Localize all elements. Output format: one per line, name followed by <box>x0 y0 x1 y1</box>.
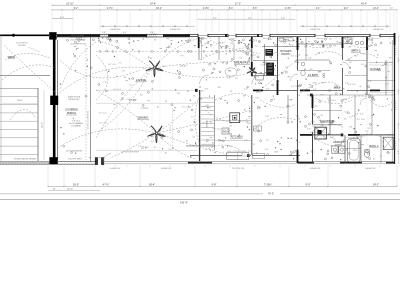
svg-text:2'-6": 2'-6" <box>168 149 172 151</box>
wall post square top-left <box>49 32 56 39</box>
svg-text:2'-6": 2'-6" <box>191 117 195 119</box>
svg-text:4'-0": 4'-0" <box>281 17 285 19</box>
svg-text:10'-10": 10'-10" <box>66 2 74 5</box>
porch-living boundary wall <box>90 37 92 162</box>
svg-text:GFI: GFI <box>246 55 249 57</box>
elevator shaft <box>315 127 327 139</box>
svg-text:CLG (PAINT): CLG (PAINT) <box>71 124 81 127</box>
svg-text:9'-0": 9'-0" <box>306 183 311 186</box>
beam dimension tick rows <box>100 25 195 27</box>
svg-text:5'-0": 5'-0" <box>344 112 348 114</box>
svg-text:2'-6": 2'-6" <box>272 99 276 101</box>
svg-text:13'-2": 13'-2" <box>373 8 379 10</box>
svg-text:8'-0" CLG: 8'-0" CLG <box>385 62 393 64</box>
svg-text:1'-6": 1'-6" <box>244 140 248 142</box>
butlers pantry upper appliance <box>265 49 273 56</box>
svg-text:4'-0": 4'-0" <box>246 87 250 89</box>
svg-text:5'-0": 5'-0" <box>118 62 122 64</box>
bath4 shower <box>383 137 393 149</box>
svg-text:3'-1": 3'-1" <box>151 141 155 143</box>
ceiling fan breakfast <box>247 68 257 77</box>
svg-text:5'-0": 5'-0" <box>143 69 147 71</box>
vertical dim mid <box>172 108 174 150</box>
kitchen sink counter <box>254 126 262 131</box>
svg-text:CLOSET: CLOSET <box>370 67 381 71</box>
bath5 tub <box>343 38 352 44</box>
svg-text:LIVING: LIVING <box>136 78 147 82</box>
right exterior wall <box>394 33 396 164</box>
svg-text:8'-0" CLG: 8'-0" CLG <box>141 108 149 110</box>
svg-text:1'-6": 1'-6" <box>355 113 359 115</box>
svg-text:5'-0": 5'-0" <box>387 153 391 155</box>
svg-text:COVERED: COVERED <box>65 108 78 112</box>
svg-text:5'-0": 5'-0" <box>297 142 301 144</box>
svg-text:1'-6": 1'-6" <box>344 99 348 101</box>
svg-text:8'-0" CLG: 8'-0" CLG <box>113 89 121 91</box>
svg-text:4'-0": 4'-0" <box>385 84 389 86</box>
svg-text:8'-0" CLG: 8'-0" CLG <box>312 132 320 134</box>
svg-text:6'-8": 6'-8" <box>126 99 130 101</box>
svg-text:2'-8": 2'-8" <box>121 34 125 36</box>
right wall window hatches <box>393 45 396 47</box>
svg-text:PANTRY: PANTRY <box>281 53 291 56</box>
svg-text:6'-8": 6'-8" <box>238 121 242 123</box>
svg-text:8'-0" CLG: 8'-0" CLG <box>108 64 116 66</box>
svg-text:8'-0" CLG: 8'-0" CLG <box>182 107 190 109</box>
svg-text:2'-8": 2'-8" <box>297 55 301 57</box>
butlers pantry lower appliance <box>266 63 274 76</box>
ceiling fan living <box>146 61 163 77</box>
schedule box bottom <box>227 153 249 160</box>
breakfast table <box>225 68 237 76</box>
svg-text:5'-0": 5'-0" <box>330 137 334 139</box>
svg-text:18'-4": 18'-4" <box>149 183 155 186</box>
svg-text:3'-1": 3'-1" <box>316 8 321 10</box>
svg-text:9'-0" CLG: 9'-0" CLG <box>170 125 172 133</box>
svg-text:10'-10": 10'-10" <box>67 188 73 190</box>
svg-text:ELEVATOR: ELEVATOR <box>320 119 334 123</box>
svg-text:3'-1": 3'-1" <box>286 122 290 124</box>
left exterior wall <box>53 35 56 161</box>
svg-text:1x6 T&G CLG BEYOND: 1x6 T&G CLG BEYOND <box>88 110 90 129</box>
svg-text:1'-6": 1'-6" <box>365 131 369 133</box>
svg-text:KITCHEN: KITCHEN <box>231 135 243 139</box>
dining width dimension <box>96 102 197 104</box>
bath4 toilet <box>364 151 369 158</box>
svg-text:4-BEAM DIM: 4-BEAM DIM <box>161 167 172 170</box>
svg-text:6'-2": 6'-2" <box>213 17 217 19</box>
stair down treads <box>201 97 214 99</box>
main bottom wall line <box>103 161 394 163</box>
svg-text:141'-4": 141'-4" <box>180 202 188 205</box>
svg-text:HALL: HALL <box>334 85 341 89</box>
svg-text:8'-0" CLG: 8'-0" CLG <box>357 119 365 121</box>
dimension row C (sub widths) <box>52 18 73 20</box>
svg-text:2'-8": 2'-8" <box>122 71 126 73</box>
svg-text:GFI: GFI <box>124 77 127 79</box>
svg-text:DECK: DECK <box>8 55 16 59</box>
deck width dimension <box>2 102 38 104</box>
svg-text:1'-6": 1'-6" <box>235 77 239 79</box>
svg-text:BATH 5: BATH 5 <box>352 49 361 53</box>
svg-text:1'-6": 1'-6" <box>244 89 248 91</box>
svg-text:9'-2": 9'-2" <box>74 8 79 10</box>
svg-text:5'-0": 5'-0" <box>352 115 356 117</box>
pantry counter square <box>256 73 263 80</box>
svg-text:8'-4": 8'-4" <box>229 8 234 10</box>
svg-text:2'-8": 2'-8" <box>311 122 315 124</box>
svg-text:1/2 BATH: 1/2 BATH <box>308 74 318 77</box>
laundry dryer <box>339 146 345 153</box>
svg-text:1'-6": 1'-6" <box>349 62 353 64</box>
svg-text:9'-0": 9'-0" <box>344 8 349 10</box>
svg-text:4-BEAM DIM: 4-BEAM DIM <box>310 167 321 170</box>
deck railing band bottom-left <box>0 161 49 164</box>
bottom dimension row B <box>48 189 100 191</box>
island note box <box>279 38 293 41</box>
closet shelf lines <box>369 62 393 64</box>
svg-text:6'-8": 6'-8" <box>264 60 268 62</box>
svg-text:8'-0" CLG: 8'-0" CLG <box>213 129 221 131</box>
svg-text:4'-7¾": 4'-7¾" <box>107 7 114 10</box>
svg-text:20'-0": 20'-0" <box>17 100 23 102</box>
svg-text:1'-6": 1'-6" <box>327 98 331 100</box>
dining lower dimension <box>96 150 197 152</box>
svg-text:24'-2": 24'-2" <box>373 183 379 186</box>
svg-text:1'-6": 1'-6" <box>207 108 211 110</box>
svg-text:2'-8": 2'-8" <box>102 32 106 34</box>
half bath fixtures <box>301 70 305 76</box>
svg-text:7'-10¾": 7'-10¾" <box>264 183 273 186</box>
svg-text:IN UNIT: IN UNIT <box>335 144 343 146</box>
svg-text:8'-0" CLG: 8'-0" CLG <box>99 123 107 125</box>
porch bottom wall hatched <box>57 161 95 163</box>
svg-text:6'-8": 6'-8" <box>256 98 260 100</box>
svg-text:4'-0": 4'-0" <box>319 45 323 47</box>
svg-text:2'-6": 2'-6" <box>138 145 142 147</box>
dimension row B (segment widths) <box>52 9 397 11</box>
svg-text:3'-1": 3'-1" <box>362 53 366 55</box>
bottom extension lines <box>47 166 49 187</box>
svg-text:6'-8": 6'-8" <box>201 91 205 93</box>
svg-text:BATH 4: BATH 4 <box>370 144 379 148</box>
svg-text:1'-6": 1'-6" <box>249 69 253 71</box>
kitchen island <box>230 113 240 123</box>
deck stairs treads <box>0 35 2 161</box>
svg-text:3'-1": 3'-1" <box>130 85 134 87</box>
svg-text:6'-8": 6'-8" <box>349 127 353 129</box>
svg-text:BUTLER'S: BUTLER'S <box>280 51 292 53</box>
deck top edge wall <box>0 34 49 36</box>
svg-text:40'-4": 40'-4" <box>361 2 367 5</box>
svg-text:6'-8": 6'-8" <box>265 116 269 118</box>
wall post square bottom-left <box>49 157 57 164</box>
svg-text:8'-0" CLG: 8'-0" CLG <box>99 112 107 114</box>
svg-text:5'-0": 5'-0" <box>322 132 326 134</box>
svg-text:5'-0": 5'-0" <box>361 64 365 66</box>
svg-text:4'-0": 4'-0" <box>259 91 263 93</box>
living ceiling break line <box>96 89 197 91</box>
svg-text:8'-0" CLG: 8'-0" CLG <box>291 86 299 88</box>
svg-text:4-BEAM DIM: 4-BEAM DIM <box>110 28 121 31</box>
top wall left thick section with window openings <box>57 33 190 35</box>
faint construction lines through plan <box>116 37 118 160</box>
svg-text:1'-6": 1'-6" <box>261 65 265 67</box>
svg-text:5'-0": 5'-0" <box>252 144 256 146</box>
svg-text:GFI: GFI <box>147 101 150 103</box>
electrical wiring arcs <box>57 67 150 95</box>
wall post square mid-left <box>50 96 58 105</box>
svg-text:32'-9¾": 32'-9¾" <box>141 147 149 150</box>
bath5 sink <box>355 41 359 45</box>
svg-text:4'-7¾": 4'-7¾" <box>102 183 109 186</box>
svg-text:GFI: GFI <box>297 118 300 120</box>
svg-text:5'-0": 5'-0" <box>199 99 203 101</box>
svg-text:5'-0": 5'-0" <box>308 57 312 59</box>
svg-text:5'-0": 5'-0" <box>297 90 301 92</box>
svg-text:ON MUD SET: ON MUD SET <box>68 99 80 101</box>
svg-text:18'-4": 18'-4" <box>156 8 162 10</box>
svg-text:4'-0": 4'-0" <box>368 80 372 82</box>
svg-text:24'-8": 24'-8" <box>150 2 156 5</box>
svg-text:6'-8": 6'-8" <box>205 89 209 91</box>
svg-text:8'-0" CLG: 8'-0" CLG <box>328 100 336 102</box>
svg-text:6'-8": 6'-8" <box>248 123 252 125</box>
svg-text:8'-0" CLG: 8'-0" CLG <box>357 136 365 138</box>
svg-text:5'-0": 5'-0" <box>285 66 289 68</box>
svg-text:8'-0" CLG: 8'-0" CLG <box>348 84 356 86</box>
svg-text:DOWN: DOWN <box>207 120 209 127</box>
laundry washer <box>332 146 338 153</box>
porch door jambs <box>95 158 97 165</box>
bottom dimension row A <box>48 185 397 187</box>
svg-text:4-BEAM DIM: 4-BEAM DIM <box>170 28 181 31</box>
svg-text:-10": -10" <box>52 188 56 190</box>
svg-text:6'-8": 6'-8" <box>307 128 311 130</box>
svg-text:2'-6": 2'-6" <box>162 66 166 68</box>
svg-text:4-BEAM DIM: 4-BEAM DIM <box>373 28 384 31</box>
svg-text:GFI: GFI <box>321 125 324 127</box>
ceiling fan dining <box>148 126 166 143</box>
svg-text:GFI: GFI <box>309 69 312 71</box>
svg-text:4-BEAM DIM: 4-BEAM DIM <box>365 167 376 170</box>
interior wall grid right half <box>199 90 201 161</box>
svg-text:4-BEAM DIM: 4-BEAM DIM <box>310 28 321 31</box>
svg-text:2'-6": 2'-6" <box>239 58 243 60</box>
svg-text:1'-6": 1'-6" <box>178 74 182 76</box>
kitchen range <box>222 128 229 134</box>
svg-text:BREAKFAST: BREAKFAST <box>234 61 250 65</box>
svg-text:GFI: GFI <box>218 87 221 89</box>
svg-text:ROUTE AS REQD: ROUTE AS REQD <box>71 39 86 42</box>
svg-text:GFI: GFI <box>206 105 209 107</box>
svg-text:4'-0": 4'-0" <box>253 129 257 131</box>
svg-text:6'-8": 6'-8" <box>318 72 322 74</box>
bottom dimension row C <box>0 193 400 195</box>
svg-text:LAUNDRY: LAUNDRY <box>333 141 344 144</box>
top wall right section with windows <box>190 33 395 35</box>
svg-text:6'-8": 6'-8" <box>227 78 231 80</box>
svg-text:6'-8": 6'-8" <box>266 89 270 91</box>
bath4 tub <box>348 139 360 162</box>
dimension row A (overall widths) <box>52 4 390 6</box>
svg-text:4'x8' LOW WTR SHELF: 4'x8' LOW WTR SHELF <box>121 151 139 153</box>
svg-text:5'-4": 5'-4" <box>248 17 252 19</box>
svg-text:12-3/4" RAFTER DIM: 12-3/4" RAFTER DIM <box>70 42 87 45</box>
beam line living <box>96 50 250 52</box>
svg-text:9'-8": 9'-8" <box>212 183 217 186</box>
svg-text:8'-6": 8'-6" <box>253 8 258 10</box>
extra door jambs dark <box>225 34 227 37</box>
svg-text:24'-10": 24'-10" <box>42 122 44 128</box>
svg-text:3'-1": 3'-1" <box>255 46 259 48</box>
svg-text:GFI: GFI <box>324 128 327 130</box>
svg-text:3'-1": 3'-1" <box>266 140 270 142</box>
extension lines from top dims to wall <box>51 11 53 33</box>
svg-text:PORCH: PORCH <box>67 111 76 115</box>
svg-text:4-BEAM DIM: 4-BEAM DIM <box>110 167 121 170</box>
svg-text:6'-8": 6'-8" <box>368 128 372 130</box>
svg-text:3'-1": 3'-1" <box>248 151 252 153</box>
svg-text:DECKING: DECKING <box>18 45 26 47</box>
svg-text:1'-6": 1'-6" <box>313 89 317 91</box>
bottom dimension row D <box>0 199 400 201</box>
svg-text:3'-1": 3'-1" <box>238 51 242 53</box>
svg-text:2'x10' WTR SHELF: 2'x10' WTR SHELF <box>68 158 83 160</box>
scattered electrical symbols <box>167 38 169 40</box>
svg-text:4'-0": 4'-0" <box>360 114 364 116</box>
svg-text:4'-0": 4'-0" <box>390 8 394 10</box>
svg-text:4'x6' PR WD AWNING: 4'x6' PR WD AWNING <box>66 150 83 153</box>
svg-text:76'-0": 76'-0" <box>268 193 274 196</box>
svg-text:16'-0": 16'-0" <box>73 183 79 186</box>
svg-text:DINING: DINING <box>138 116 149 120</box>
svg-text:PIN ZONE DIM: PIN ZONE DIM <box>232 168 245 170</box>
svg-text:6'-8": 6'-8" <box>290 45 294 47</box>
svg-text:17'-2": 17'-2" <box>235 2 241 5</box>
svg-text:4'-0": 4'-0" <box>265 149 269 151</box>
svg-text:2'-6": 2'-6" <box>250 56 254 58</box>
svg-text:1'-6": 1'-6" <box>296 149 300 151</box>
